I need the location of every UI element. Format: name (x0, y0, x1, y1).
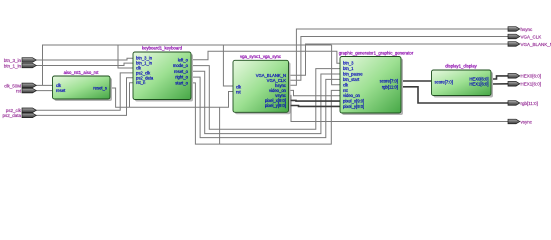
svg-text:pixel_x[9:0]: pixel_x[9:0] (343, 99, 364, 104)
svg-text:display1_display: display1_display (445, 64, 477, 69)
bus gg score to display score (401, 80, 432, 82)
module vga_sync1_vga_sync (233, 54, 291, 114)
svg-text:keyboard1_keyboard: keyboard1_keyboard (142, 46, 183, 51)
svg-text:rgb[11:0]: rgb[11:0] (521, 101, 538, 106)
svg-text:btn_3: btn_3 (343, 61, 354, 66)
svg-text:HEX1[6:0]: HEX1[6:0] (521, 82, 542, 87)
input port btn_3_in (4, 58, 37, 63)
svg-text:ps2_data: ps2_data (2, 113, 21, 118)
svg-text:score[7:0]: score[7:0] (380, 79, 398, 84)
bus display HEX0 to output port (491, 76, 508, 79)
svg-text:btn_3_in: btn_3_in (4, 58, 22, 63)
wire rst to aiso reset (36, 90, 53, 92)
wire vga video_on to gg video_on (289, 90, 341, 95)
svg-text:HEX0[6:0]: HEX0[6:0] (521, 74, 542, 79)
svg-text:pixel_y[9:0]: pixel_y[9:0] (265, 103, 286, 108)
wire keyboard right_o to gg btn_start (191, 77, 340, 138)
input port clk_50M (4, 83, 36, 88)
input port btn_1_in (4, 63, 37, 68)
output port HEX1[6:0] (508, 82, 541, 87)
wire reset_s net: aiso to keyboard rst_n and vga rst (110, 83, 233, 144)
svg-text:reset: reset (56, 88, 66, 93)
svg-text:btn_1: btn_1 (343, 66, 354, 71)
wire keyboard left_o to gg btn_3 (191, 51, 340, 63)
svg-text:rst_n: rst_n (136, 80, 146, 85)
module keyboard1_keyboard (133, 46, 193, 102)
output port rgb[11:0] (508, 101, 538, 106)
svg-text:btn_1_in: btn_1_in (4, 63, 22, 68)
input port rst (16, 88, 36, 93)
svg-text:vsync: vsync (521, 119, 533, 124)
wire vga VGA_CLK to output port (289, 37, 509, 81)
wire keyboard reset_o to gg btn_pause (191, 71, 340, 133)
output port HEX0[6:0] (508, 74, 541, 79)
wire btn_3_in to keyboard btn_3_in (36, 58, 133, 60)
svg-text:clk: clk (236, 84, 242, 89)
output port VGA_BLANK_N (508, 42, 551, 47)
svg-text:right_o: right_o (175, 75, 188, 80)
svg-text:btn_pause: btn_pause (343, 72, 363, 77)
svg-text:rst: rst (16, 88, 22, 93)
bus vga pixel_y to gg pixel_y (289, 105, 341, 108)
svg-text:clk: clk (343, 82, 349, 87)
module display1_display (432, 64, 494, 98)
bus display HEX1 to output port (491, 83, 508, 85)
svg-text:VGA_CLK: VGA_CLK (521, 34, 542, 39)
svg-text:btn_start: btn_start (343, 77, 360, 82)
svg-text:VGA_BLANK_N: VGA_BLANK_N (521, 42, 551, 47)
wire vga VGA_BLANK_N to output port (289, 44, 509, 75)
input port ps2_clk (6, 108, 37, 113)
svg-text:pixel_y[9:0]: pixel_y[9:0] (343, 104, 364, 109)
wire keyboard start_o to gg rst (191, 83, 340, 144)
wire clk net: clk_50M to aiso/keyboard/vga/gg (36, 45, 340, 86)
output port vsync (508, 119, 533, 124)
bus gg rgb to output port (401, 87, 508, 103)
svg-text:video_on: video_on (343, 93, 361, 98)
wire keyboard mode_o to gg btn_1 (191, 66, 340, 130)
svg-text:graphic_generator1_graphic_gen: graphic_generator1_graphic_generator (339, 51, 414, 56)
wire vga hsync to output port (289, 29, 509, 85)
bus vga pixel_x to gg pixel_x (289, 99, 341, 102)
svg-text:vga_sync1_vga_sync: vga_sync1_vga_sync (240, 54, 282, 59)
svg-text:aiso_rst1_aiso_rst: aiso_rst1_aiso_rst (64, 70, 100, 75)
output port hsync (508, 27, 533, 32)
wire ps2_clk to keyboard (36, 73, 133, 110)
svg-text:reset_s: reset_s (93, 86, 107, 91)
module aiso_rst1_aiso_rst (53, 70, 113, 101)
wire ps2_data to keyboard (36, 78, 133, 116)
output port VGA_CLK (508, 34, 541, 39)
svg-text:start_o: start_o (175, 80, 188, 85)
wire btn_1_in to keyboard btn_1_in (36, 63, 133, 65)
svg-text:hsync: hsync (521, 27, 534, 32)
svg-text:left_o: left_o (178, 57, 189, 62)
input port ps2_data (2, 113, 36, 118)
svg-text:rgb[11:0]: rgb[11:0] (382, 84, 398, 89)
wire vga vsync to output port (289, 95, 509, 121)
svg-text:score[7:0]: score[7:0] (435, 80, 453, 85)
svg-text:mode_o: mode_o (173, 63, 189, 68)
module graphic_generator1_graphic_generator (339, 51, 414, 116)
svg-text:HEX1[6:0]: HEX1[6:0] (469, 82, 488, 87)
svg-text:reset_o: reset_o (174, 69, 189, 74)
